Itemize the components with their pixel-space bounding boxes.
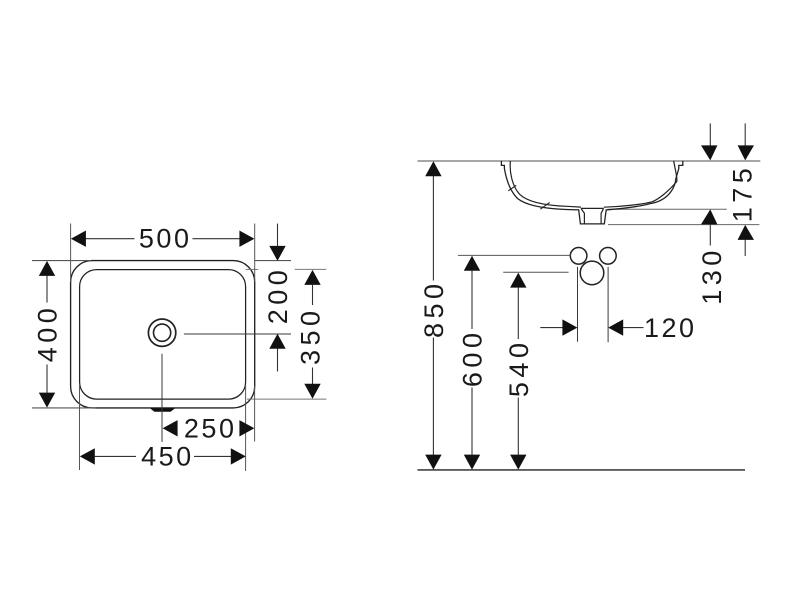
dimension 540 reference line <box>503 271 568 273</box>
dimension 500 right arrow <box>239 231 254 247</box>
svg-text:450: 450 <box>141 442 194 472</box>
dimension 450 right arrow <box>231 448 246 464</box>
dimension 350 line segments <box>312 285 314 305</box>
svg-text:540: 540 <box>504 339 534 398</box>
drain inner circle <box>154 324 171 341</box>
extension line: outer right edge downward <box>254 386 256 442</box>
extension line: inner left edge downward <box>79 385 81 470</box>
dimension 540 line segments <box>517 287 519 339</box>
dimension 200 upper tail <box>277 224 279 247</box>
dimension 350 top arrow (points up) <box>304 270 320 285</box>
extension line: drain bottom to the right <box>608 224 759 226</box>
faucet hole small right <box>600 248 617 265</box>
dimension 120 left tail <box>540 327 563 329</box>
faucet hole centerline left <box>577 267 579 342</box>
dimension 400 line segments <box>46 276 48 303</box>
extension line: bowl bottom to the right <box>608 208 727 210</box>
dimension 540 top arrow <box>510 273 526 288</box>
dimension 600 line segments <box>471 271 473 330</box>
svg-text:600: 600 <box>457 329 487 388</box>
extension line: top edge to the right <box>255 260 291 262</box>
dimension 130 lower arrow (points up to bowl bottom) <box>701 209 717 224</box>
dimension 500 line segments <box>85 238 135 240</box>
dimension 400 top arrow <box>39 261 55 276</box>
extension line: inner bottom edge to the right <box>247 398 327 400</box>
svg-text:500: 500 <box>139 224 192 254</box>
dimension 850 bottom arrow <box>425 455 441 470</box>
drain outer circle <box>148 319 175 346</box>
drain funnel right <box>601 208 604 224</box>
svg-text:175: 175 <box>727 164 757 223</box>
dimension 200 lower arrow (points up) <box>269 334 285 349</box>
countertop / rim reference line <box>418 160 761 162</box>
faucet hole small left <box>570 248 587 265</box>
glaze tick mark left wall <box>508 185 516 191</box>
extension line: inner right edge downward <box>245 385 247 471</box>
extension line: inner top edge to the right <box>246 268 259 270</box>
centerline vertical from drain <box>161 354 163 442</box>
dimension 600 top arrow <box>464 256 480 271</box>
dimension 130 upper arrow (points down to rim) <box>701 145 717 160</box>
dimension 130 lower tail <box>709 224 711 245</box>
dimension 250 left arrow (points left) <box>163 420 178 436</box>
dimension 350 bottom arrow (points down) <box>304 384 320 399</box>
extension line: top edge to the left <box>32 260 91 262</box>
basin cross-section inner surface left <box>510 161 581 207</box>
faucet hole big center <box>580 261 604 285</box>
dimension 120 right arrow (points left) <box>608 319 623 335</box>
dimension 175 upper tail <box>744 123 746 146</box>
centerline horizontal from drain <box>184 333 291 335</box>
drain funnel left <box>581 208 584 224</box>
extension line: 500 left <box>70 224 72 283</box>
extension line: bottom edge to the left <box>32 407 96 409</box>
drain hole top edge <box>581 207 604 209</box>
extension line: 500 right <box>254 224 256 283</box>
basin inner bowl edge (top view) <box>80 270 246 400</box>
dimension 175 lower arrow (points up to drain bottom) <box>738 225 754 240</box>
dimension 120 left arrow (points right) <box>562 319 577 335</box>
svg-text:400: 400 <box>33 304 63 363</box>
faucet hole centerline right <box>607 267 609 343</box>
dimension 175 lower tail <box>744 240 746 256</box>
dimension 540 bottom arrow <box>510 455 526 470</box>
dimension 850 top arrow <box>425 161 441 176</box>
drain fixing tab (bottom of rim) <box>150 408 175 411</box>
svg-text:850: 850 <box>419 279 449 338</box>
floor line <box>418 469 746 471</box>
dimension 600 bottom arrow <box>464 455 480 470</box>
basin cross-section inner surface right (overflow lines cross) <box>604 161 677 207</box>
glaze tick mark bottom right <box>540 202 549 209</box>
dimension 450 line segments <box>95 455 137 457</box>
dimension 850 line segments <box>432 176 434 281</box>
dimension 175 upper arrow (points down to rim) <box>738 145 754 160</box>
svg-text:120: 120 <box>644 313 697 343</box>
dimension 450 left arrow <box>80 448 95 464</box>
basin outer rim (top view) <box>71 261 255 408</box>
svg-text:250: 250 <box>184 413 237 443</box>
basin cross-section outer profile left <box>501 161 682 224</box>
dimension 500 left arrow <box>71 231 86 247</box>
svg-text:200: 200 <box>263 266 293 325</box>
dimension 250 right arrow (points right) <box>239 420 254 436</box>
svg-text:350: 350 <box>296 306 326 365</box>
dimension 130 upper tail <box>709 123 711 146</box>
dimension 600 reference line <box>458 254 571 256</box>
dimension 120 right tail <box>623 327 644 329</box>
dimension 200 upper arrow (points down) <box>269 246 285 261</box>
dimension 400 bottom arrow <box>39 393 55 408</box>
svg-text:130: 130 <box>697 246 727 305</box>
dimension 200 lower tail <box>277 349 279 372</box>
